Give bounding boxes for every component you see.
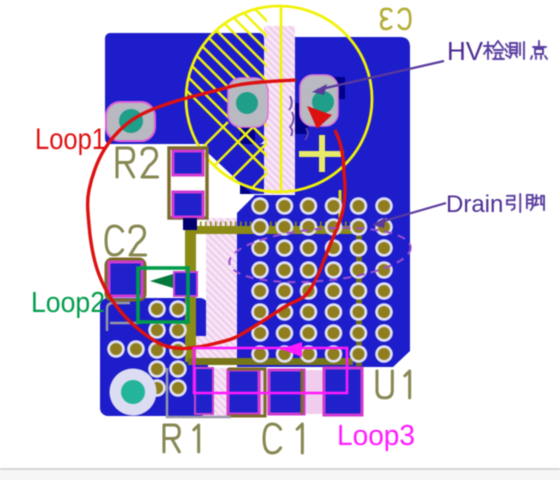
big pad on B4 xyxy=(110,369,157,416)
hanzi 检测点 and 引脚 drawn as strokes xyxy=(484,41,547,212)
annotation: dashed ellipse around drain vias xyxy=(227,221,413,289)
label U1 xyxy=(377,371,410,398)
copper pour region B2 (right blue block with via area) xyxy=(237,37,410,367)
annotation: red Loop1 ellipse with arrow xyxy=(88,80,345,349)
keepout pink around bottom pads xyxy=(203,368,229,416)
C3 courtyard tick xyxy=(339,190,342,233)
label C1 xyxy=(264,424,302,453)
copper pour region B4 (bottom-left blue block) xyxy=(100,298,208,416)
C3 hatched pour wedge below B1 xyxy=(207,144,264,194)
capacitor C2 xyxy=(106,259,197,300)
magenta loop3 arrow xyxy=(281,342,302,357)
capacitor C1 pad left xyxy=(228,370,259,414)
label R2 xyxy=(117,148,158,177)
purple squiggle marks near HV pad xyxy=(289,96,294,136)
label C2 xyxy=(106,226,146,255)
U1 pad bottom xyxy=(324,368,362,415)
copper pour region B1 (top-left blue rect) xyxy=(105,33,264,144)
svg-text:Loop2: Loop2 xyxy=(31,287,105,319)
C3 polarity divider line xyxy=(280,7,283,191)
label C3 (rotated) xyxy=(381,9,410,29)
annotation: Drain pointer line xyxy=(377,203,446,223)
capacitor C3 hatch fill xyxy=(96,0,511,220)
resistor R2 xyxy=(169,148,207,230)
dark net strip under C3 pad2 xyxy=(240,122,255,194)
capacitor C1 pad right xyxy=(269,370,304,414)
svg-text:Loop3: Loop3 xyxy=(337,420,415,452)
green loop2 arrow xyxy=(150,274,173,288)
svg-text:HV: HV xyxy=(447,36,484,66)
photo frame line bottom xyxy=(0,470,560,480)
keepout pink sliver left of via block xyxy=(196,336,206,362)
via grid under U1 xyxy=(107,197,393,397)
trace T2 (vertical trace) xyxy=(185,228,196,362)
pad P1 (B1 bottom-left pad) xyxy=(106,102,155,141)
capacitor C3 outline (yellow circle) xyxy=(186,6,372,192)
label R1 xyxy=(164,425,199,452)
bottom pads row: R1 right pad xyxy=(195,368,213,414)
dark net patch near HV pad xyxy=(295,103,308,134)
pad C3 positive / HV detect xyxy=(300,75,338,126)
trace T4 (vertical right trace) xyxy=(356,230,362,366)
keepout strip P2 (pink, middle) xyxy=(206,218,237,360)
svg-text:Drain: Drain xyxy=(446,191,503,218)
pad C3 negative xyxy=(228,78,268,127)
silkscreen marks xyxy=(107,303,231,417)
capacitor C1 courtyard outline xyxy=(228,369,302,416)
annotation: HV pointer line xyxy=(317,61,444,90)
annotation: green Loop2 rect xyxy=(138,268,188,322)
C3 plus symbol xyxy=(299,135,344,172)
trace T1 hatch ticks xyxy=(190,222,357,227)
trace T1 (horizontal drain trace) xyxy=(185,226,361,234)
capacitor C3 body gap (pink strip) xyxy=(264,26,295,194)
annotation: magenta Loop3 rect xyxy=(194,348,347,393)
svg-text:Loop1: Loop1 xyxy=(35,123,106,156)
trace T3 (bottom horizontal trace) xyxy=(188,358,353,365)
